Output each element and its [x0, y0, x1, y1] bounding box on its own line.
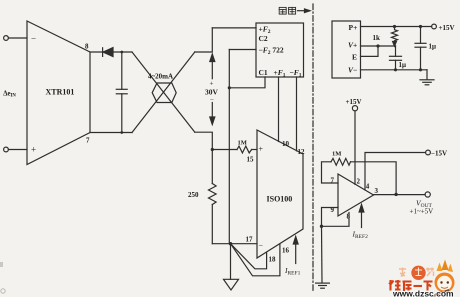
svg-text:C2: C2 [259, 34, 268, 43]
wire 250 to node [211, 205, 213, 244]
svg-text:17: 17 [246, 236, 254, 244]
terminal +15V top [432, 24, 437, 29]
svg-text:−F1: −F1 [290, 68, 302, 79]
diode [103, 48, 113, 57]
wire pin 17 [212, 243, 257, 245]
capacitor [116, 52, 127, 133]
svg-text:4: 4 [366, 183, 370, 191]
svg-text:15: 15 [247, 156, 255, 164]
svg-text:+1~+5V: +1~+5V [410, 208, 434, 216]
junction node pin15 branch [211, 148, 214, 151]
wire pin8 [90, 51, 132, 53]
capacitor 1u right [415, 27, 426, 70]
wire pin 16 [231, 244, 280, 276]
wire pin7 loop [322, 162, 339, 183]
wire pin7 [90, 132, 132, 134]
wire +F1 to pin10 [278, 77, 280, 142]
wire V+ [361, 45, 396, 47]
junction C1 [228, 86, 231, 89]
wire top right corner [195, 28, 213, 52]
wire -15V [365, 153, 425, 190]
wire C1 [229, 77, 265, 88]
svg-text:V−: V− [348, 65, 357, 74]
mascot [431, 260, 455, 297]
svg-text:+15V: +15V [346, 98, 362, 106]
svg-text:−: − [210, 96, 214, 104]
wire E jog [361, 46, 379, 56]
junction cap2 top [419, 25, 422, 28]
input terminal minus [4, 36, 9, 41]
earth ground top right [420, 70, 434, 85]
resistor 250 [209, 184, 217, 205]
wire V- rail [361, 69, 428, 71]
wire bottom right corner [195, 132, 213, 183]
svg-text:7: 7 [86, 137, 90, 145]
svg-text:8: 8 [85, 43, 89, 51]
wire [8, 37, 27, 39]
scan artifact mark [1, 289, 5, 293]
terminal Vout [425, 192, 430, 197]
svg-text:+F1: +F1 [274, 68, 286, 79]
ground stem [230, 244, 232, 280]
svg-text:V+: V+ [348, 41, 357, 50]
earth ground right [316, 283, 330, 288]
label isolation (drawn glyphs) [279, 7, 295, 14]
svg-text:18: 18 [269, 256, 277, 264]
svg-text:−: − [31, 34, 36, 44]
wire crossover bottom-left to top-right [132, 52, 195, 133]
svg-text:1M: 1M [238, 140, 247, 147]
resistor 1k [392, 27, 398, 41]
junction V+ E [376, 44, 379, 47]
resistor 1M input [212, 146, 257, 153]
input terminal plus [4, 147, 9, 152]
scan artifact mark [0, 262, 3, 267]
svg-text:16: 16 [282, 247, 290, 255]
wire crossover top-left to bottom-right [132, 52, 195, 132]
svg-text:ISO100: ISO100 [267, 195, 293, 204]
svg-text:+: + [259, 145, 264, 154]
1k arrow tip [393, 42, 397, 47]
wire [8, 149, 27, 151]
svg-text:3: 3 [375, 187, 379, 195]
ground wire right [321, 226, 324, 282]
junction [120, 131, 123, 134]
svg-text:−15V: −15V [431, 150, 447, 158]
svg-text:−: − [259, 241, 264, 250]
amplifier XTR101 [27, 21, 90, 165]
watermark badge [411, 266, 425, 280]
svg-text:IREF1: IREF1 [284, 266, 301, 277]
op-amp output stage [338, 174, 374, 216]
junction cap2 bottom [419, 68, 422, 71]
svg-text:10: 10 [282, 140, 290, 148]
svg-text:1μ: 1μ [399, 61, 407, 69]
resistor 1M feedback [331, 158, 351, 165]
ground triangle [224, 279, 239, 290]
svg-text:www.dzsc.com: www.dzsc.com [392, 289, 454, 297]
IREF2 arrow [359, 205, 364, 228]
junction cap1 bottom [394, 68, 397, 71]
svg-text:−F2 722: −F2 722 [259, 46, 284, 57]
svg-text:P+: P+ [349, 23, 358, 32]
wire -F2 vertical [228, 50, 230, 244]
wire pin8 [322, 213, 350, 227]
isolation arrow [298, 9, 311, 13]
junction feedback output [394, 193, 397, 196]
svg-text:1μ: 1μ [429, 43, 437, 51]
svg-text:+: + [31, 145, 36, 155]
watermark title glyphs (wei ku yi xia) [389, 280, 433, 291]
svg-text:+15V: +15V [439, 24, 455, 32]
svg-text:C1: C1 [259, 68, 268, 77]
capacitor 1u left [390, 46, 402, 70]
feedback wire [351, 162, 397, 195]
hexagon current loop 4-20mA [152, 83, 176, 103]
IREF1 arrow [293, 237, 298, 264]
junction [120, 51, 123, 54]
faint slogan glyphs [399, 268, 434, 277]
junction 1k top [393, 25, 396, 28]
terminal +15V op-amp [352, 106, 357, 111]
watermark [389, 260, 455, 297]
svg-text:XTR101: XTR101 [46, 88, 75, 97]
svg-text:4~20mA: 4~20mA [148, 73, 173, 81]
terminal -15V [426, 150, 431, 155]
svg-text:+: + [210, 80, 214, 88]
wire +F2 [212, 27, 256, 29]
wire -F1 to pin12 [296, 77, 298, 151]
svg-text:1k: 1k [373, 34, 381, 42]
junction ground node [229, 242, 232, 245]
wire P+ rail [361, 26, 432, 28]
wire pin9 loop [322, 208, 339, 227]
isolation amplifier ISO100 [257, 130, 303, 258]
wire -F2 [229, 49, 256, 51]
svg-text:E: E [352, 52, 357, 61]
svg-text:1M: 1M [332, 151, 341, 158]
svg-text:250: 250 [188, 191, 199, 199]
power block 722 supply [332, 21, 361, 78]
output wire [374, 194, 426, 196]
DCDC block 722 [256, 23, 304, 77]
svg-text:IREF2: IREF2 [352, 230, 369, 241]
svg-text:12: 12 [298, 148, 306, 156]
wire +15V to pin2 [354, 111, 356, 185]
svg-text:2: 2 [357, 178, 361, 186]
svg-text:ΔeIN: ΔeIN [3, 90, 16, 98]
wire pin 18 [231, 244, 267, 269]
isolation dash-dot line [312, 4, 314, 292]
junction ground right [320, 225, 323, 228]
30V annotation [205, 54, 219, 125]
